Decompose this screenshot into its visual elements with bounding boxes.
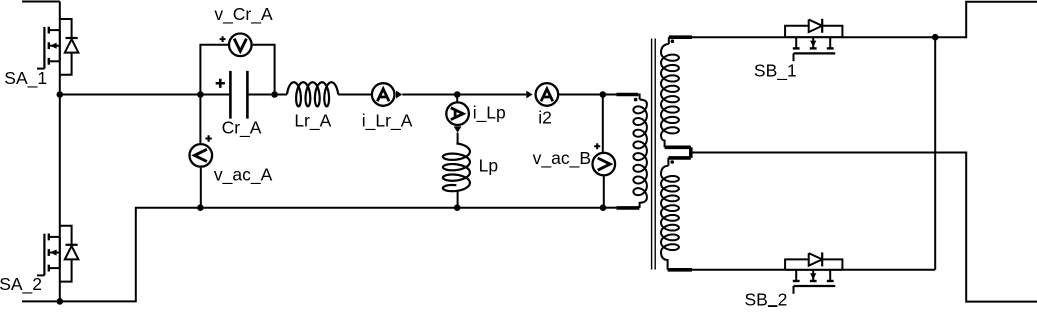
wire: [402, 94, 457, 96]
transistor Q SB_1: [785, 37, 842, 61]
wire: [247, 94, 274, 96]
label i2: [538, 108, 552, 128]
node Lp tap: [454, 91, 461, 98]
svg-text:SA_2: SA_2: [0, 274, 42, 295]
wire: [457, 133, 459, 144]
node Lp bottom: [454, 204, 461, 211]
svg-text:v_Cr_A: v_Cr_A: [214, 4, 273, 25]
svg-text:SA_1: SA_1: [4, 68, 47, 89]
body diode of SA_2: [60, 226, 79, 282]
node SA_2 source junction: [57, 298, 64, 305]
transistor Q SB_2: [785, 270, 842, 294]
label i_Lp: [473, 103, 506, 124]
wire: [842, 36, 935, 38]
node v_ac_A bottom: [197, 204, 204, 211]
inductor Lr_A: [287, 82, 338, 106]
label SA_2: [0, 274, 42, 295]
voltmeter v_ac_B: [593, 153, 616, 176]
ammeter i_Lr_A: [372, 83, 395, 106]
svg-text:SB_1: SB_1: [754, 60, 797, 81]
wire: [457, 94, 526, 96]
wire: [59, 268, 61, 301]
svg-text:i_Lp: i_Lp: [473, 103, 506, 124]
svg-text:Lr_A: Lr_A: [294, 110, 331, 131]
wire: [603, 207, 617, 209]
wire: [59, 95, 61, 237]
label v_ac_A: [214, 165, 273, 186]
wire: [22, 2, 60, 31]
wire: [457, 191, 459, 208]
label v_Cr_A: [214, 4, 273, 25]
label + of Cr_A: [216, 79, 225, 88]
svg-text:Cr_A: Cr_A: [222, 117, 262, 138]
body diode of SB_2: [785, 252, 842, 269]
label Cr_A: [222, 117, 262, 138]
transistor Q SA_2: [37, 234, 60, 276]
transformer core: [652, 39, 656, 270]
label SB_2: [745, 289, 788, 310]
wire: [456, 95, 458, 103]
transistor Q SA_1: [37, 27, 60, 69]
label polarity dot primary A: [634, 98, 638, 102]
wire center tap: [691, 147, 1037, 301]
arrow of i_Lr_A: [396, 91, 402, 99]
node v_ac_B tap: [600, 91, 607, 98]
label + of v_ac_A: [205, 135, 211, 141]
label + of v_ac_B: [594, 143, 600, 149]
ammeter i_Lp: [446, 102, 469, 125]
wire: [59, 61, 61, 94]
svg-text:v_ac_B: v_ac_B: [533, 148, 591, 169]
body diode of SB_1: [785, 19, 842, 37]
svg-text:Lp: Lp: [479, 156, 498, 176]
ammeter i2: [536, 83, 559, 106]
label v_ac_B: [533, 148, 591, 169]
wire: [559, 94, 603, 96]
arrow of i_Lp: [454, 126, 462, 132]
label polarity dot secondary bottom: [670, 160, 674, 164]
voltmeter v_Cr_A: [229, 34, 252, 57]
wire: [603, 94, 617, 96]
svg-text:v_ac_A: v_ac_A: [214, 165, 273, 186]
svg-text:i_Lr_A: i_Lr_A: [362, 110, 413, 131]
label + of v_Cr_A: [220, 36, 226, 42]
svg-text:i2: i2: [538, 108, 552, 128]
wire: [457, 207, 603, 209]
wire: [603, 176, 605, 208]
transformer primary winding A: [617, 95, 647, 208]
wire: [200, 45, 228, 95]
svg-text:SB_2: SB_2: [745, 289, 788, 307]
wire: [692, 269, 785, 271]
voltmeter v_ac_A: [190, 144, 213, 167]
wire: [338, 94, 371, 96]
wire: [200, 168, 202, 208]
wire: [602, 95, 604, 153]
wire: [275, 94, 287, 96]
wire: [199, 95, 201, 144]
wire: [22, 300, 60, 302]
label SB_1: [754, 60, 797, 81]
inductor Lp: [443, 143, 470, 191]
wire: [60, 208, 201, 302]
transformer secondary winding top: [661, 37, 692, 147]
node v_ac_B bottom: [600, 204, 607, 211]
node rectifier output: [932, 34, 939, 41]
node v_Cr_A left tap: [197, 91, 204, 98]
arrow of i2: [526, 91, 532, 99]
label Lr_A: [294, 110, 331, 131]
wire: [842, 269, 935, 271]
label SA_1: [4, 68, 47, 89]
node v_Cr_A right tap: [271, 91, 278, 98]
wire: [60, 94, 201, 96]
wire: [692, 36, 785, 38]
wire: [200, 207, 457, 209]
wire: [253, 45, 275, 95]
wire: [935, 2, 1037, 37]
capacitor Cr_A: [230, 71, 247, 119]
wire: [934, 37, 936, 270]
body diode of SA_1: [60, 19, 79, 75]
label i_Lr_A: [362, 110, 413, 131]
label polarity dot secondary top: [671, 39, 675, 43]
node A junction: [57, 91, 64, 98]
label Lp: [479, 156, 498, 176]
wire: [200, 94, 230, 96]
transformer secondary winding bottom: [661, 158, 692, 270]
